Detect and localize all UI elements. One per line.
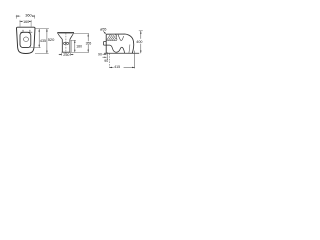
svg-text:355: 355 (86, 42, 92, 46)
svg-text:90: 90 (98, 53, 102, 57)
svg-text:360: 360 (25, 12, 32, 17)
svg-text:520: 520 (48, 37, 55, 42)
svg-text:160: 160 (23, 20, 29, 24)
svg-text:ø55: ø55 (100, 28, 106, 32)
svg-text:90: 90 (104, 59, 108, 63)
svg-text:250: 250 (63, 53, 69, 57)
svg-text:400: 400 (136, 40, 142, 44)
svg-text:180: 180 (76, 45, 82, 49)
svg-text:435: 435 (40, 39, 46, 43)
svg-text:415: 415 (114, 65, 120, 69)
